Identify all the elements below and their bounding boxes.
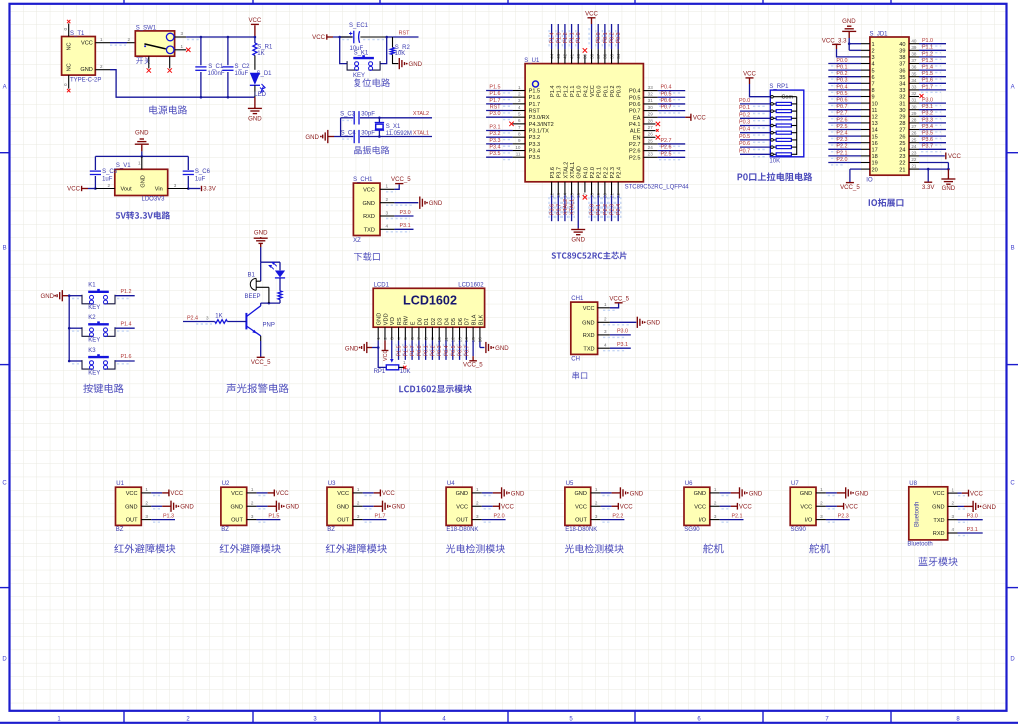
svg-text:P2.5: P2.5 — [629, 155, 641, 161]
svg-text:P2.3: P2.3 — [610, 204, 616, 215]
U1 right pin 33 P0.4 — [629, 85, 685, 95]
JD1 left pin 12 net P2.7 — [828, 111, 870, 119]
svg-text:OUT: OUT — [575, 518, 587, 524]
svg-text:P2.3: P2.3 — [610, 167, 616, 179]
svg-text:P3.3: P3.3 — [489, 138, 500, 144]
svg-text:P0.3: P0.3 — [739, 120, 750, 126]
svg-text:RW: RW — [404, 315, 410, 325]
svg-text:VO: VO — [390, 316, 396, 325]
svg-text:P2.7: P2.7 — [629, 142, 641, 148]
svg-text:P3.5: P3.5 — [529, 155, 541, 161]
serial pin 1 to VCC_5 — [598, 302, 619, 310]
svg-text:GND: GND — [377, 313, 383, 325]
ground GND power circuit — [254, 97, 256, 108]
svg-text:2: 2 — [386, 197, 389, 202]
svg-text:GND: GND — [392, 504, 406, 511]
svg-text:P1.6: P1.6 — [529, 95, 541, 101]
svg-text:1: 1 — [357, 487, 360, 492]
svg-text:P0.3: P0.3 — [617, 85, 623, 97]
U1 top pin 35 — [609, 24, 616, 64]
ground GND LCD left — [345, 342, 378, 353]
capacitor S_C2 10uF — [222, 36, 250, 99]
svg-text:GND: GND — [141, 175, 147, 187]
svg-text:RP1: RP1 — [374, 369, 386, 375]
svg-text:P3.1/TX: P3.1/TX — [529, 129, 549, 135]
power VCC for RP1 — [749, 78, 751, 84]
svg-text:8: 8 — [518, 131, 521, 136]
RP1 resistor element P0.1 — [739, 105, 797, 113]
svg-text:VCC: VCC — [970, 490, 983, 497]
svg-text:P0.1: P0.1 — [603, 32, 609, 43]
svg-text:LCD1: LCD1 — [374, 283, 390, 289]
connector S_T1 TYPE-C-2P — [62, 31, 102, 83]
svg-text:P0.4: P0.4 — [629, 89, 641, 95]
svg-text:17: 17 — [872, 148, 878, 154]
svg-text:KEY: KEY — [88, 371, 100, 377]
svg-text:1uF: 1uF — [195, 176, 206, 182]
U1 right pin 32 P0.5 — [629, 91, 685, 101]
svg-text:3: 3 — [206, 316, 209, 321]
svg-text:1: 1 — [604, 302, 607, 307]
svg-text:I/O: I/O — [699, 518, 707, 524]
svg-text:25: 25 — [648, 138, 654, 143]
svg-text:30pF: 30pF — [361, 112, 375, 118]
svg-text:P2.4: P2.4 — [616, 204, 622, 215]
JD1 right pin 27 — [909, 124, 946, 132]
RP1 common pin wire from VCC — [750, 84, 797, 155]
svg-text:2: 2 — [595, 500, 598, 505]
svg-text:VCC: VCC — [382, 490, 395, 497]
svg-text:GND: GND — [286, 504, 300, 511]
ground GND below U1 — [571, 228, 585, 243]
svg-text:P2.3: P2.3 — [836, 137, 847, 143]
svg-text:P3.7: P3.7 — [557, 167, 563, 179]
svg-text:GND: GND — [694, 491, 706, 497]
svg-text:26: 26 — [911, 131, 917, 136]
svg-text:B1: B1 — [248, 272, 256, 278]
svg-text:GND: GND — [180, 504, 194, 511]
key K3 KEY — [69, 348, 135, 377]
LCD pin 2 VDD — [382, 327, 389, 361]
svg-text:23: 23 — [911, 151, 917, 156]
svg-text:P2.5: P2.5 — [836, 124, 847, 130]
svg-text:VCC: VCC — [743, 71, 756, 78]
svg-text:OUT: OUT — [126, 518, 138, 524]
svg-text:S_U1: S_U1 — [524, 58, 540, 64]
svg-text:33: 33 — [899, 88, 905, 94]
svg-text:8: 8 — [872, 88, 875, 94]
svg-text:37: 37 — [899, 62, 905, 68]
svg-text:0: 0 — [63, 83, 68, 86]
LED D2 alarm — [269, 262, 285, 278]
svg-text:2: 2 — [357, 500, 360, 505]
svg-text:P1.5: P1.5 — [489, 85, 500, 91]
JD1 right pin 30 — [909, 104, 946, 112]
svg-text:VCC: VCC — [248, 17, 261, 24]
svg-text:XZ: XZ — [353, 238, 361, 244]
svg-text:TXD: TXD — [583, 346, 594, 352]
svg-text:2: 2 — [872, 49, 875, 55]
svg-text:10uF: 10uF — [235, 71, 249, 77]
JD1 left pin 16 net P2.3 — [828, 137, 870, 145]
connector S_CH1 download port — [353, 177, 380, 244]
JD1 left pin 8 net P0.4 — [828, 84, 870, 92]
svg-text:GND: GND — [135, 130, 149, 137]
U1 left pin 10 P3.4 — [486, 145, 540, 155]
svg-text:24: 24 — [911, 144, 917, 149]
svg-text:39: 39 — [911, 45, 917, 50]
svg-text:P3.0: P3.0 — [400, 210, 411, 216]
svg-text:S_C5: S_C5 — [102, 169, 118, 175]
svg-text:VCC: VCC — [312, 34, 325, 41]
JD1 pin 1 wire GND — [848, 38, 870, 45]
svg-text:26: 26 — [899, 134, 905, 140]
svg-text:3.3V: 3.3V — [922, 184, 935, 191]
svg-text:P0.5: P0.5 — [451, 345, 457, 356]
svg-text:P1.0: P1.0 — [577, 85, 583, 97]
svg-text:3: 3 — [145, 514, 148, 519]
U1 left pin 6 P4.3/INT2 — [509, 118, 553, 128]
svg-text:VCC: VCC — [694, 504, 706, 510]
svg-text:1: 1 — [251, 487, 254, 492]
svg-text:P0.0: P0.0 — [836, 58, 847, 64]
svg-text:32: 32 — [648, 92, 654, 97]
power VCC at EA pin — [685, 116, 691, 118]
U1 left pin 5 P3.0/RX — [486, 111, 550, 121]
svg-text:GND: GND — [855, 490, 869, 497]
svg-text:P0.5: P0.5 — [660, 91, 671, 97]
svg-text:6: 6 — [518, 118, 521, 123]
svg-text:P0.0: P0.0 — [739, 98, 750, 104]
pin 0 top of T1 — [63, 20, 71, 37]
svg-text:S_EC1: S_EC1 — [349, 23, 369, 29]
svg-text:BZ: BZ — [327, 527, 335, 533]
LCD pin 4 RS — [396, 327, 403, 360]
RP1 resistor element P0.4 — [739, 127, 797, 135]
svg-text:P0.1: P0.1 — [603, 85, 609, 97]
svg-text:P3.4: P3.4 — [922, 124, 933, 130]
svg-text:P3.1: P3.1 — [967, 527, 978, 533]
ground GND key circuit — [40, 290, 69, 301]
svg-text:GND: GND — [429, 200, 443, 207]
svg-text:GND: GND — [230, 504, 242, 510]
svg-text:11: 11 — [516, 152, 521, 157]
svg-text:VCC: VCC — [933, 491, 945, 497]
pin 0 bottom of T1 — [63, 75, 71, 92]
ground GND crystal — [305, 130, 340, 143]
svg-text:P4.1: P4.1 — [629, 122, 641, 128]
svg-text:3: 3 — [251, 514, 254, 519]
LCD pin 15 BLA — [469, 327, 477, 361]
svg-text:3: 3 — [518, 98, 521, 103]
svg-text:9: 9 — [872, 95, 875, 101]
module U5 E18-D80NK — [565, 481, 597, 533]
svg-text:10: 10 — [515, 145, 521, 150]
svg-text:GND: GND — [647, 320, 661, 327]
svg-text:VCC: VCC — [583, 306, 595, 312]
U1 bottom pin 12 P3.6 — [549, 182, 556, 221]
svg-text:Bluetooth: Bluetooth — [915, 502, 921, 527]
regulator pin 2 wire — [95, 183, 114, 189]
svg-text:P1.1: P1.1 — [570, 32, 576, 43]
svg-text:S_C6: S_C6 — [195, 169, 211, 175]
download port pin 4 net P3.1 — [380, 223, 414, 232]
U1 left pin 9 P3.3 — [486, 138, 540, 148]
capacitor S_C6 1uF — [183, 156, 211, 189]
svg-text:BLK: BLK — [478, 314, 484, 325]
svg-text:GND: GND — [495, 345, 509, 352]
svg-text:P0.7: P0.7 — [629, 109, 641, 115]
LED S_D1 — [250, 71, 272, 98]
svg-text:P1.7: P1.7 — [529, 102, 541, 108]
svg-text:3: 3 — [820, 514, 823, 519]
svg-text:TYPE-C-2P: TYPE-C-2P — [70, 78, 101, 84]
svg-text:GND: GND — [362, 201, 374, 207]
svg-text:RXD: RXD — [363, 214, 375, 220]
svg-text:XTAL2: XTAL2 — [563, 162, 569, 179]
svg-text:P2.6: P2.6 — [629, 149, 641, 155]
svg-text:D6: D6 — [458, 318, 464, 325]
svg-text:29: 29 — [899, 115, 905, 121]
svg-text:LDO3V3: LDO3V3 — [142, 197, 166, 203]
svg-text:A: A — [1011, 85, 1015, 91]
svg-text:NC: NC — [66, 63, 72, 71]
svg-text:K1: K1 — [88, 283, 96, 289]
svg-text:21: 21 — [899, 167, 905, 173]
svg-text:23: 23 — [648, 152, 654, 157]
U1 right pin 29 EA — [633, 112, 685, 122]
LCD pin 1 GND — [376, 327, 381, 347]
JD1 pin 2 wire GND — [849, 44, 870, 51]
svg-text:P1.7: P1.7 — [410, 345, 416, 356]
svg-text:VCC: VCC — [845, 504, 858, 511]
svg-text:1: 1 — [386, 184, 389, 189]
svg-text:E18-D80NK: E18-D80NK — [565, 527, 597, 533]
svg-text:P0.6: P0.6 — [836, 98, 847, 104]
svg-text:VCC_5: VCC_5 — [609, 296, 629, 303]
U1 top pin 34 — [616, 24, 623, 64]
svg-text:GND: GND — [932, 505, 944, 511]
module U8 Bluetooth — [907, 481, 947, 548]
svg-text:P1.6: P1.6 — [922, 78, 933, 84]
svg-text:P2.1: P2.1 — [597, 167, 603, 179]
svg-text:P1.2: P1.2 — [922, 51, 933, 57]
svg-text:D3: D3 — [438, 318, 444, 325]
svg-text:GND: GND — [582, 321, 594, 327]
svg-text:LCD1602: LCD1602 — [458, 283, 484, 289]
svg-text:PNP: PNP — [263, 322, 275, 328]
svg-text:VCC: VCC — [948, 153, 961, 160]
svg-text:10K: 10K — [395, 51, 406, 57]
svg-text:VCC: VCC — [456, 504, 468, 510]
svg-text:K3: K3 — [88, 348, 96, 354]
svg-text:3: 3 — [476, 514, 479, 519]
title serial port — [572, 372, 587, 380]
svg-text:2: 2 — [952, 501, 955, 506]
svg-text:P1.5: P1.5 — [397, 345, 403, 356]
svg-text:U6: U6 — [685, 481, 693, 487]
svg-text:S_X1: S_X1 — [386, 124, 401, 130]
module U4 pin 2 — [472, 500, 515, 510]
svg-text:VCC_5: VCC_5 — [840, 184, 860, 191]
U1 top pin 43 — [556, 24, 563, 64]
svg-text:1: 1 — [138, 160, 141, 165]
module U7 pin 1 — [816, 487, 869, 498]
SW1 pin 1 no connect — [175, 44, 191, 52]
svg-text:RST: RST — [529, 109, 541, 115]
svg-text:P1.3: P1.3 — [163, 514, 174, 520]
svg-text:P0.3: P0.3 — [616, 32, 622, 43]
JD1 left pin 4 net P0.0 — [828, 58, 870, 66]
JD1 right pin 35 — [909, 71, 946, 79]
svg-text:P1.5: P1.5 — [922, 71, 933, 77]
title 舵机 — [703, 544, 724, 554]
svg-text:1: 1 — [100, 37, 103, 42]
svg-text:14: 14 — [872, 128, 878, 134]
svg-text:P0.6: P0.6 — [739, 141, 750, 147]
svg-text:32: 32 — [899, 95, 905, 101]
svg-text:P3.2: P3.2 — [529, 135, 541, 141]
svg-text:24: 24 — [648, 145, 654, 150]
download port pin 2 to GND — [380, 197, 418, 205]
svg-text:P2.3: P2.3 — [838, 514, 849, 520]
JD1 left pin 13 net P2.6 — [828, 117, 870, 125]
svg-text:34: 34 — [899, 82, 905, 88]
svg-text:U2: U2 — [222, 481, 230, 487]
switch S_SW1 — [135, 25, 174, 64]
LCD pin 14 D7 — [464, 327, 471, 360]
svg-text:P0.7: P0.7 — [739, 148, 750, 154]
U1 right pin 31 P0.6 — [629, 98, 685, 108]
svg-text:10K: 10K — [769, 159, 780, 165]
svg-text:P2.2: P2.2 — [836, 144, 847, 150]
svg-text:4: 4 — [386, 224, 389, 229]
svg-text:1uF: 1uF — [102, 176, 113, 182]
svg-text:P2.6: P2.6 — [660, 145, 671, 151]
svg-text:P0.2: P0.2 — [610, 32, 616, 43]
svg-text:OUT: OUT — [337, 518, 349, 524]
U1 left pin 1 P1.5 — [486, 85, 540, 95]
svg-text:D: D — [1010, 657, 1015, 663]
regulator S_V1 LDO3V3 — [115, 163, 168, 203]
svg-text:P0.7: P0.7 — [464, 345, 470, 356]
svg-text:38: 38 — [899, 55, 905, 61]
svg-text:P0.6: P0.6 — [629, 102, 641, 108]
title crystal circuit — [354, 146, 389, 154]
svg-text:RXD: RXD — [933, 531, 945, 537]
title 舵机 — [809, 544, 830, 554]
JD1 right pin 29 — [909, 111, 946, 119]
svg-text:VCC_5: VCC_5 — [251, 359, 271, 366]
svg-text:P1.7: P1.7 — [922, 84, 933, 90]
svg-text:P0.3: P0.3 — [437, 345, 443, 356]
svg-text:VCC: VCC — [231, 491, 243, 497]
svg-text:GND: GND — [630, 490, 644, 497]
svg-text:P0.2: P0.2 — [739, 112, 750, 118]
svg-text:1: 1 — [476, 487, 479, 492]
svg-text:P3.1: P3.1 — [400, 223, 411, 229]
svg-text:GND: GND — [942, 185, 956, 192]
svg-text:VCC_3.3: VCC_3.3 — [822, 37, 847, 44]
svg-text:D2: D2 — [431, 318, 437, 325]
svg-text:100nF: 100nF — [208, 71, 225, 77]
wire EC1 to RST node — [338, 31, 418, 40]
svg-text:39: 39 — [899, 49, 905, 55]
connector S_JD1 body — [866, 32, 909, 184]
U1 left pin 8 P3.2 — [486, 131, 540, 141]
svg-text:Bluetooth: Bluetooth — [907, 542, 932, 548]
svg-text:VCC: VCC — [693, 115, 706, 122]
U1 bottom inner pin names — [550, 162, 623, 179]
svg-text:S_CH1: S_CH1 — [353, 177, 373, 183]
MCU S_U1 STC89C52RC body — [524, 58, 689, 191]
svg-text:3: 3 — [386, 210, 389, 215]
svg-text:P0.3: P0.3 — [836, 78, 847, 84]
U1 bottom pin 15 XTAL1 — [569, 182, 576, 221]
svg-text:P3.0: P3.0 — [617, 329, 628, 335]
potentiometer RP1 10K — [374, 346, 411, 375]
resistor alarm LED — [278, 278, 282, 303]
module U4 pin 3 — [472, 514, 506, 523]
svg-text:XTAL1: XTAL1 — [413, 131, 429, 137]
svg-text:19: 19 — [872, 161, 878, 167]
svg-text:1: 1 — [952, 487, 955, 492]
svg-text:P3.1: P3.1 — [489, 125, 500, 131]
svg-text:P3.0: P3.0 — [967, 514, 978, 520]
JD1 left pin 15 net P2.4 — [828, 131, 870, 139]
JD1 right pin 25 — [909, 137, 946, 145]
svg-text:P3.4: P3.4 — [529, 149, 541, 155]
RP1 resistor element P0.2 — [739, 112, 797, 120]
svg-text:VCC: VCC — [585, 11, 598, 18]
U1 right pin 24 P2.6 — [629, 145, 685, 155]
svg-text:P0.4: P0.4 — [739, 127, 750, 133]
svg-text:B: B — [1011, 246, 1015, 252]
JD1 left pin 14 net P2.5 — [828, 124, 870, 132]
svg-text:36: 36 — [899, 68, 905, 74]
svg-text:P3.0/RX: P3.0/RX — [529, 115, 550, 121]
svg-text:P1.6: P1.6 — [403, 345, 409, 356]
svg-text:3: 3 — [174, 183, 177, 188]
JD1 pin 23 VCC — [909, 151, 961, 161]
svg-text:P0.6: P0.6 — [458, 345, 464, 356]
svg-text:GND: GND — [248, 115, 262, 122]
svg-text:P2.0: P2.0 — [590, 167, 596, 179]
svg-text:P2.0: P2.0 — [590, 204, 596, 215]
title reset circuit — [354, 78, 390, 87]
LCD pin names — [377, 313, 485, 325]
U1 bottom pin 21 P2.3 — [609, 182, 616, 221]
U1 top pin 44 — [549, 24, 556, 64]
svg-text:TXD: TXD — [364, 228, 375, 234]
svg-text:P2.1: P2.1 — [731, 514, 742, 520]
svg-text:23: 23 — [899, 154, 905, 160]
svg-text:XTAL2: XTAL2 — [413, 111, 429, 117]
JD1 right pin 28 — [909, 117, 946, 125]
module U7 pin 3 — [816, 514, 850, 523]
U1 left pin 3 P1.7 — [486, 98, 540, 108]
svg-text:1: 1 — [595, 487, 598, 492]
svg-text:S_RP1: S_RP1 — [769, 84, 789, 90]
svg-text:P1.4: P1.4 — [922, 65, 933, 71]
svg-text:P0.4: P0.4 — [444, 345, 450, 356]
JD1 left pin 19 net P2.0 — [828, 157, 870, 165]
svg-text:2: 2 — [128, 37, 131, 42]
power VCC reset — [312, 34, 353, 41]
U1 right pin 25 P2.7 — [629, 138, 685, 148]
svg-text:VCC: VCC — [126, 491, 138, 497]
module U1 pin 1 — [141, 487, 184, 497]
